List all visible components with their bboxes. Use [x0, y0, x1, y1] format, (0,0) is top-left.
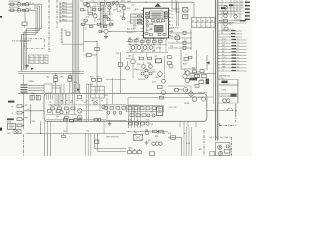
- pot VR1: [78, 109, 82, 113]
- wire vertical: [177, 2, 179, 26]
- svg-text:Q3 Q4: Q3 Q4: [156, 48, 161, 50]
- resistor R1: [10, 3, 14, 5]
- wire bundle verticals bottom-right: [184, 127, 192, 156]
- top-center extra wires: [80, 2, 124, 30]
- label rows: [127, 29, 135, 35]
- IC U2 small: [157, 107, 163, 116]
- svg-text:C809: C809: [46, 77, 50, 79]
- component row A2: [107, 111, 122, 114]
- resistor R76: [74, 118, 82, 121]
- capacitor C22: [68, 74, 71, 78]
- svg-text:D52: D52: [151, 124, 154, 126]
- svg-text:Q504: Q504: [152, 81, 156, 83]
- svg-text:V2: V2: [237, 67, 239, 69]
- wire bundle into board: [57, 94, 66, 105]
- transistor Q3: [17, 8, 21, 12]
- board label: [169, 103, 190, 109]
- transistor Q29: [189, 92, 193, 96]
- pin labels left of IC: [134, 10, 137, 33]
- transistor Q4: [25, 9, 28, 12]
- svg-text:P13: P13: [134, 17, 137, 19]
- svg-text:R808: R808: [66, 112, 70, 114]
- transistor Q11: [131, 46, 135, 50]
- CRT board outline: [44, 94, 207, 122]
- wire IC top: [157, 2, 159, 3]
- svg-text:C303: C303: [144, 38, 148, 40]
- svg-text:2.1: 2.1: [39, 62, 41, 64]
- svg-text:R81: R81: [49, 102, 52, 104]
- svg-text:D304: D304: [152, 71, 156, 73]
- arrow node: [77, 84, 80, 94]
- capacitor C42: [231, 94, 237, 97]
- svg-text:B+: B+: [184, 133, 186, 135]
- section boundary dash-dot bottom-right: [203, 130, 205, 156]
- misc dots bottom center: [128, 120, 141, 132]
- svg-text:C305: C305: [160, 38, 164, 40]
- svg-text:GND2: GND2: [222, 63, 226, 65]
- capacitor C13: [135, 40, 139, 42]
- svg-text:Q606: Q606: [185, 90, 189, 92]
- long wire nested corners bottom center: [95, 134, 127, 152]
- bottom row parts: [128, 149, 155, 155]
- svg-text:V.CC: V.CC: [222, 60, 225, 62]
- resistor R46: [141, 40, 145, 42]
- resistor R72: [159, 130, 164, 133]
- capacitor C58: [195, 84, 199, 87]
- svg-text:L2: L2: [116, 1, 118, 3]
- svg-text:P12: P12: [134, 14, 137, 16]
- resistor R22: [17, 111, 24, 114]
- pot VR2: [78, 115, 82, 119]
- resistor R34: [107, 3, 111, 5]
- resistor R41: [138, 15, 142, 17]
- svg-text:C86: C86: [55, 112, 58, 114]
- resistor R61: [78, 95, 82, 99]
- wire chain row 1: [8, 2, 34, 5]
- svg-text:C703: C703: [63, 131, 67, 133]
- svg-text:R83 1k: R83 1k: [62, 11, 67, 13]
- resistor R62: [92, 78, 96, 81]
- resistor R24: [17, 124, 24, 127]
- svg-text:C810: C810: [60, 77, 64, 79]
- IC U1 inner parts: [146, 12, 167, 32]
- transistor Q28: [194, 74, 198, 78]
- rail below IC: [128, 43, 167, 46]
- hatch ticks: [47, 94, 53, 99]
- wire bundle corners top-left: [22, 4, 42, 70]
- wire stub rows upper: [218, 30, 242, 37]
- svg-text:R302: R302: [136, 38, 140, 40]
- capacitor C53: [54, 78, 58, 81]
- svg-text:472: 472: [170, 31, 173, 33]
- node cross: [235, 106, 237, 116]
- IC U1 inner sub-box: [150, 11, 164, 18]
- capacitor C19: [186, 54, 192, 59]
- wire corner: [40, 121, 41, 134]
- resistor R43: [138, 22, 142, 24]
- svg-text:L303: L303: [154, 56, 157, 58]
- svg-text:in: in: [206, 25, 207, 27]
- svg-text:23: 23: [171, 14, 173, 16]
- top edge tick labels: [92, 1, 118, 3]
- wires to IC left pins: [131, 14, 144, 24]
- svg-text:C608 R609 D610: C608 R609 D610: [219, 76, 231, 78]
- svg-text:V2: V2: [237, 57, 239, 59]
- wire vertical: [193, 2, 195, 17]
- svg-text:Q303: Q303: [152, 50, 156, 52]
- wire vertical right: [237, 80, 239, 104]
- sub-circuit box: [181, 50, 197, 69]
- transistor Q15: [131, 54, 136, 64]
- switch S5: [224, 150, 230, 153]
- label row dense: [219, 76, 231, 80]
- board interior parts row: [48, 105, 124, 118]
- capacitor C15: [183, 31, 186, 34]
- wire stub: [59, 19, 72, 21]
- svg-text:D303: D303: [134, 69, 138, 71]
- arrow into connector: [206, 55, 209, 70]
- wire down from CN2: [23, 93, 25, 104]
- resistor R57: [184, 58, 188, 61]
- svg-text:in: in: [192, 25, 193, 27]
- label field top-center: [80, 1, 139, 28]
- wire rows board: [103, 105, 126, 121]
- component row D: [129, 122, 154, 126]
- transistor Q16: [142, 65, 146, 69]
- svg-text:2.1: 2.1: [44, 56, 46, 58]
- svg-text:S2 R4 C5 Q2: S2 R4 C5 Q2: [9, 7, 19, 9]
- transistor Q22: [158, 86, 166, 99]
- svg-text:R511: R511: [190, 76, 194, 78]
- svg-text:Q201: Q201: [121, 1, 125, 3]
- svg-text:R310: R310: [137, 64, 141, 66]
- svg-text:R84 1k: R84 1k: [62, 15, 67, 17]
- transistor Q17: [149, 65, 153, 69]
- resistor R33: [101, 3, 105, 5]
- svg-text:CRT PCB: CRT PCB: [169, 107, 178, 109]
- svg-text:C702: C702: [86, 131, 90, 133]
- wire vertical junction rail: [190, 29, 191, 50]
- transistor Q18: [158, 72, 163, 77]
- resistor R44: [95, 47, 99, 50]
- wire bundle verticals: [129, 106, 141, 129]
- svg-text:R821: R821: [25, 105, 28, 107]
- svg-text:R215 C216: R215 C216: [127, 29, 135, 31]
- left edge mark: [0, 16, 2, 18]
- wire bundle vertical bottom-left: [45, 134, 51, 157]
- svg-text:R218: R218: [135, 9, 139, 11]
- jack J4: [226, 145, 229, 148]
- relay cluster: [134, 133, 143, 141]
- svg-text:C235: C235: [170, 46, 174, 48]
- bus stub bold labels: [218, 39, 239, 72]
- bridge rectifier X2: [183, 8, 188, 12]
- wire vertical: [23, 104, 25, 130]
- component row A: [104, 107, 126, 110]
- ground board: [108, 120, 112, 125]
- svg-text:R81 1k: R81 1k: [62, 5, 67, 7]
- wire verticals inside board: [55, 94, 107, 120]
- svg-text:V2: V2: [237, 70, 239, 72]
- transistor Q24: [192, 97, 205, 102]
- capacitor C11: [84, 53, 97, 56]
- wire rows mid: [218, 20, 246, 23]
- wire row: [168, 42, 191, 44]
- svg-text:V2: V2: [237, 42, 239, 44]
- labels below IC: [128, 38, 164, 53]
- svg-text:V501: V501: [105, 95, 109, 97]
- resistor R65: [190, 76, 198, 81]
- board interior labels: [49, 100, 95, 114]
- resistor R71: [153, 130, 158, 133]
- svg-text:C90 PW: C90 PW: [184, 103, 190, 105]
- svg-text:Q301: Q301: [130, 50, 134, 52]
- svg-text:22: 22: [171, 18, 173, 20]
- top-center extra parts: [81, 2, 115, 28]
- section boundary dash-dot B: [56, 0, 58, 28]
- coil pair L5: [152, 142, 162, 145]
- svg-text:C217: C217: [131, 4, 135, 6]
- svg-text:R304: R304: [152, 38, 156, 40]
- transistor chain Q43: [224, 23, 228, 31]
- wire row: [168, 47, 191, 49]
- capacitor C21: [54, 74, 57, 78]
- svg-text:R823: R823: [25, 117, 28, 119]
- svg-text:2.1: 2.1: [34, 62, 36, 64]
- board bottom pins: [180, 121, 196, 127]
- resistor R23: [17, 118, 24, 121]
- svg-text:in: in: [211, 25, 212, 27]
- svg-text:CN802: CN802: [29, 81, 34, 83]
- wire stub: [59, 8, 72, 10]
- svg-text:V2: V2: [237, 48, 239, 50]
- transistor Q5: [84, 3, 90, 7]
- wire stub rows with labels: [218, 39, 247, 72]
- wire bus horizontal pair: [18, 70, 84, 74]
- wire bundle below IC: [130, 38, 166, 52]
- svg-text:C824: C824: [32, 121, 35, 123]
- resistor R47: [147, 40, 151, 42]
- connector CN2: [21, 84, 28, 92]
- svg-text:D601: D601: [219, 21, 223, 23]
- resistor R32: [88, 12, 93, 15]
- svg-text:2.1: 2.1: [34, 56, 36, 58]
- wires small right: [191, 86, 207, 97]
- wire long horizontal: [26, 133, 126, 135]
- focus block: [91, 86, 104, 98]
- small parts lower-left board: [48, 110, 69, 119]
- capacitor C57: [206, 79, 209, 85]
- transistor Q19: [168, 56, 174, 68]
- wire horizontal mid: [109, 32, 130, 42]
- wire horizontal to connector: [190, 73, 216, 75]
- component row B: [128, 107, 156, 110]
- svg-text:CN553: CN553: [128, 148, 133, 150]
- wire horizontal: [126, 131, 168, 132]
- svg-text:C233: C233: [170, 36, 174, 38]
- wire horizontal: [168, 85, 191, 87]
- wire bundle small: [101, 5, 106, 28]
- capacitor C16: [183, 41, 186, 44]
- wire verticals top right: [222, 0, 240, 34]
- resistor R55: [175, 36, 180, 40]
- svg-text:R212: R212: [97, 19, 101, 21]
- resistor R58: [195, 74, 200, 77]
- svg-text:V2: V2: [237, 39, 239, 41]
- svg-text:R556: R556: [128, 120, 131, 122]
- wire stepped: [84, 41, 98, 94]
- bottom bundle extension: [45, 121, 51, 133]
- IC U1 interior parts: [145, 12, 167, 36]
- labels mid-center block: [128, 55, 160, 79]
- section boundary dash-dot bottom-left: [23, 135, 25, 157]
- wire to IC: [108, 31, 143, 33]
- wire bundle vertical band: [73, 0, 79, 94]
- svg-text:L202: L202: [97, 4, 100, 6]
- shield box: [44, 84, 52, 93]
- wire into board top edge: [18, 93, 44, 95]
- svg-text:IC201: IC201: [150, 24, 154, 26]
- svg-text:P17: P17: [134, 32, 137, 34]
- svg-text:2.1: 2.1: [29, 59, 31, 61]
- svg-text:Q302: Q302: [141, 50, 145, 52]
- wire stub: [59, 15, 72, 17]
- top-right mesh: [218, 0, 246, 30]
- svg-text:C554: C554: [162, 133, 165, 135]
- svg-text:C603: C603: [228, 24, 232, 26]
- svg-text:B+115: B+115: [222, 42, 226, 44]
- photocoupler D1: [124, 61, 130, 70]
- labels board above: [46, 76, 101, 83]
- IC U1 inner dark block: [155, 26, 164, 33]
- transistor Q7: [108, 6, 111, 9]
- svg-text:2.1: 2.1: [44, 62, 46, 64]
- svg-text:19: 19: [171, 28, 173, 30]
- transistor Q26: [185, 71, 189, 75]
- wire verticals bottom center: [86, 134, 91, 157]
- voltage table: [29, 55, 49, 64]
- speaker SP1: [210, 152, 215, 156]
- diode D11: [222, 81, 228, 84]
- power label blob: [8, 101, 14, 103]
- flag symbol above IC: [155, 3, 161, 6]
- resistor R31: [84, 3, 88, 5]
- svg-text:H.VCC: H.VCC: [222, 48, 226, 50]
- bottom cluster labels: [128, 112, 165, 142]
- section boundary dash-dot A: [48, 0, 50, 52]
- svg-text:V2: V2: [237, 64, 239, 66]
- wire stubs top right: [218, 2, 250, 20]
- svg-text:20: 20: [171, 25, 173, 27]
- svg-text:224: 224: [184, 39, 187, 41]
- resistor R49: [159, 40, 163, 42]
- svg-text:in: in: [202, 25, 203, 27]
- wire vertical: [120, 52, 122, 94]
- svg-text:V2: V2: [237, 45, 239, 47]
- resistor R59: [202, 74, 207, 77]
- svg-text:H.OUT: H.OUT: [186, 143, 190, 145]
- capacitor C17: [183, 46, 186, 49]
- capacitor C61: [95, 140, 99, 144]
- wire stub: [59, 2, 72, 4]
- svg-text:D555: D555: [148, 140, 151, 142]
- svg-text:R811: R811: [74, 82, 77, 84]
- svg-text:12V: 12V: [222, 70, 224, 72]
- wire vertical: [30, 104, 32, 124]
- svg-text:T551: T551: [134, 133, 137, 135]
- transistor Q10: [99, 29, 108, 33]
- board long wires: [46, 111, 103, 115]
- svg-text:T204: T204: [116, 53, 120, 55]
- speaker box dash-dot: [210, 137, 232, 156]
- svg-text:C204: C204: [80, 1, 84, 3]
- svg-text:C207: C207: [101, 9, 105, 11]
- top rail wire: [86, 2, 194, 3]
- resistor R73: [171, 136, 176, 139]
- svg-text:R220: R220: [133, 25, 137, 27]
- resistor R45: [118, 63, 123, 66]
- svg-text:FBT: FBT: [53, 82, 56, 84]
- resistor R68: [200, 70, 204, 73]
- svg-text:R801 C802 R803: R801 C802 R803: [50, 105, 61, 107]
- svg-text:R8: R8: [12, 107, 14, 109]
- ground: [25, 64, 29, 68]
- resistor R66: [199, 81, 204, 84]
- wire pair vertical left: [22, 35, 24, 84]
- capacitor C55: [70, 119, 74, 122]
- svg-text:24: 24: [171, 10, 173, 12]
- capacitor C12: [129, 40, 133, 42]
- label block: [7, 118, 14, 123]
- svg-text:C301: C301: [128, 38, 132, 40]
- svg-text:R214: R214: [117, 11, 121, 13]
- svg-text:L203: L203: [127, 1, 131, 3]
- wire row: [168, 32, 191, 34]
- svg-text:CN4: CN4: [64, 30, 67, 32]
- svg-text:V2: V2: [237, 54, 239, 56]
- svg-text:C807: C807: [56, 116, 60, 118]
- section boundary dash-dot right: [219, 104, 236, 126]
- resistor R48: [153, 40, 157, 42]
- svg-text:C1: C1: [92, 1, 94, 3]
- resistor R42: [138, 19, 142, 21]
- wire horizontal from box to cross: [207, 110, 234, 112]
- transistor Q12: [137, 46, 141, 50]
- transistor chain Q41: [224, 6, 228, 14]
- svg-text:R520 C521 R522: R520 C521 R522: [128, 105, 139, 107]
- svg-text:T801: T801: [7, 133, 11, 135]
- wire bundle vertical: [87, 84, 91, 121]
- capacitor C31: [62, 134, 65, 138]
- svg-text:R80 1k: R80 1k: [62, 2, 67, 4]
- svg-text:2.1: 2.1: [29, 56, 31, 58]
- wires mid-center block: [126, 53, 160, 79]
- transistor Q21: [152, 79, 165, 83]
- svg-text:C213: C213: [110, 20, 114, 22]
- capacitor C54: [68, 78, 72, 81]
- diode bridge D2: [141, 69, 152, 78]
- svg-text:r 4700: r 4700: [222, 90, 227, 92]
- resistor R75: [64, 118, 68, 121]
- svg-text:C8: C8: [12, 113, 14, 115]
- IC U1 pins right: [169, 11, 171, 36]
- resistor R35: [120, 5, 125, 7]
- svg-text:C246: C246: [200, 79, 203, 81]
- switch S3: [22, 22, 27, 28]
- bottom labels: [63, 131, 190, 145]
- wire vertical right of band: [83, 26, 85, 52]
- IC U1 pin labels right: [171, 10, 173, 33]
